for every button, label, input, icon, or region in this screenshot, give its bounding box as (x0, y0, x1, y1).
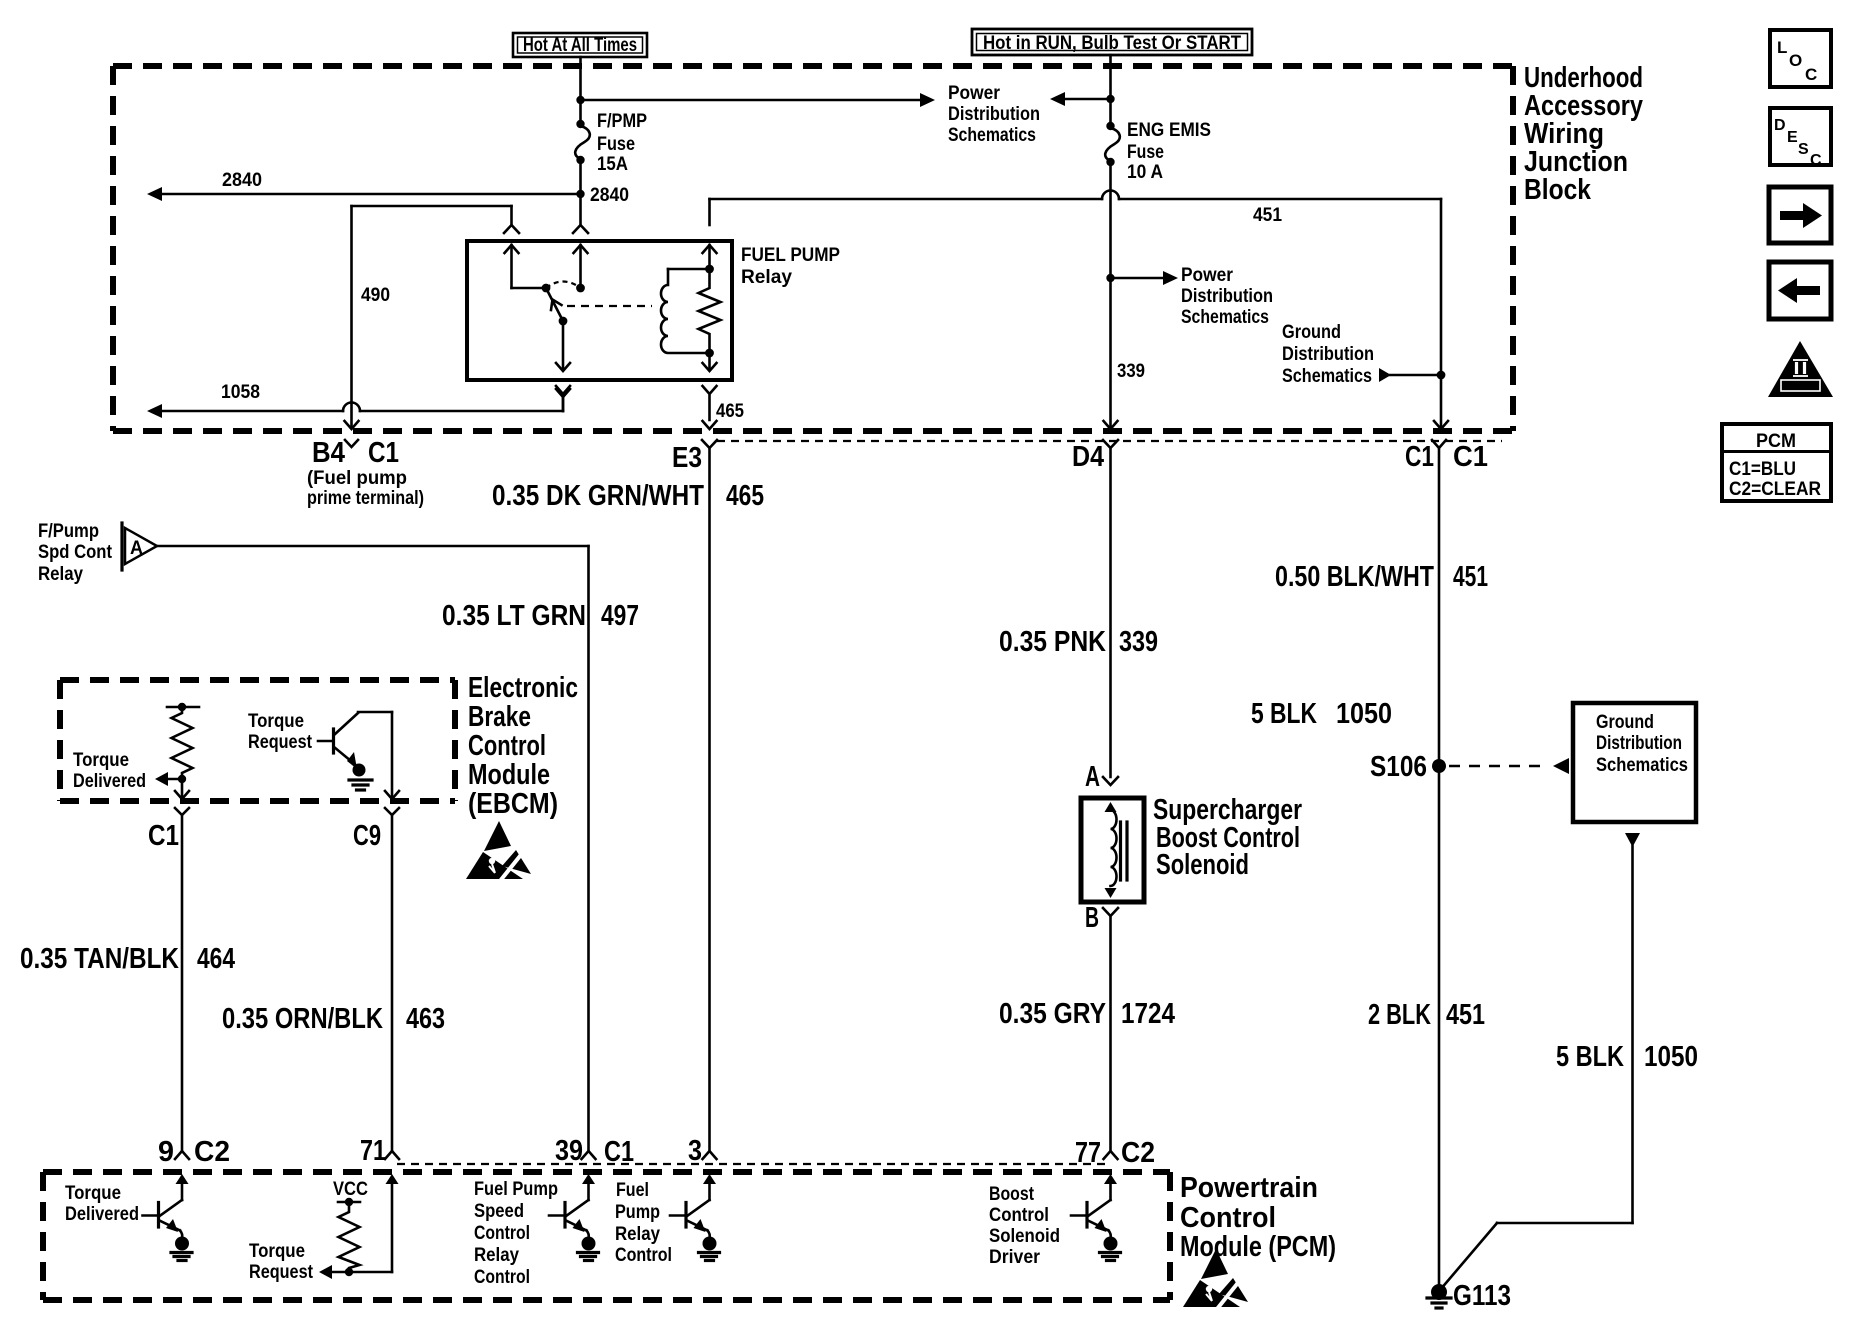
svg-text:5 BLK: 5 BLK (1556, 1041, 1624, 1073)
svg-text:F/Pump: F/Pump (38, 520, 99, 542)
label Supercharger Boost Control Solenoid (1153, 794, 1302, 881)
splice S106 (1432, 758, 1569, 774)
label 0.35 GRY 1724 (999, 998, 1175, 1030)
wire to Power Distribution Schematics (right arrow) (581, 93, 936, 107)
svg-text:C1: C1 (604, 1136, 634, 1168)
label 2 BLK 451 (1368, 999, 1485, 1031)
wire 339 vertical to D4 (1104, 162, 1118, 429)
svg-text:Power: Power (1181, 264, 1233, 286)
svg-text:15A: 15A (597, 153, 628, 175)
relay internal: dashed link switch to coil (567, 305, 652, 307)
svg-text:Schematics: Schematics (1181, 306, 1269, 328)
svg-text:10 A: 10 A (1127, 161, 1163, 183)
svg-text:Fuel: Fuel (616, 1179, 649, 1201)
svg-text:0.35 PNK: 0.35 PNK (999, 626, 1106, 658)
svg-text:Powertrain: Powertrain (1180, 1172, 1318, 1204)
svg-text:ENG EMIS: ENG EMIS (1127, 119, 1211, 141)
relay connector below switch (Y) (556, 386, 570, 411)
PCM dashed box (43, 1172, 1170, 1300)
svg-text:339: 339 (1119, 626, 1158, 658)
ESD symbol (PCM) (1183, 1249, 1248, 1309)
svg-text:B: B (1085, 902, 1099, 934)
svg-text:C2=CLEAR: C2=CLEAR (1729, 478, 1821, 500)
relay switch pivot node (542, 284, 551, 293)
solenoid coil with arrows (1105, 802, 1117, 898)
svg-text:5 BLK: 5 BLK (1251, 698, 1317, 730)
label Torque Request (PCM) (249, 1240, 313, 1283)
svg-text:D: D (1774, 117, 1786, 134)
Supercharger Boost Control Solenoid box (1081, 798, 1144, 902)
label 0.35 DK GRN/WHT 465 (492, 480, 764, 512)
relay switch blade with arrow (546, 288, 563, 321)
svg-text:Control: Control (989, 1204, 1049, 1226)
icon right-arrow box (1769, 187, 1831, 243)
svg-text:Distribution: Distribution (1282, 343, 1374, 365)
svg-text:Relay: Relay (741, 266, 792, 288)
svg-text:Torque: Torque (249, 1240, 305, 1262)
svg-text:464: 464 (197, 943, 235, 975)
svg-text:OBD II: OBD II (1785, 382, 1815, 392)
relay internal: left pin up-arrow and feed to switch pivot (505, 245, 544, 288)
svg-text:C: C (1810, 152, 1822, 169)
wire 1058 from left edge to relay switch pin (147, 389, 570, 418)
svg-text:2 BLK: 2 BLK (1368, 999, 1431, 1031)
svg-text:Delivered: Delivered (73, 770, 146, 792)
label pin 77 C2 (1075, 1137, 1155, 1169)
svg-text:77: 77 (1075, 1137, 1101, 1169)
svg-text:0.50 BLK/WHT: 0.50 BLK/WHT (1275, 561, 1434, 593)
wire ground distribution arrow to 451 (1379, 368, 1445, 382)
label (Fuel pump prime terminal) (307, 467, 424, 509)
label 0.35 PNK 339 (999, 626, 1158, 658)
svg-text:Distribution: Distribution (948, 103, 1040, 125)
icon DESC box (1770, 108, 1831, 169)
label Power Distribution Schematics (top) (948, 82, 1040, 146)
node 2840 (576, 190, 584, 198)
svg-text:Ground: Ground (1282, 321, 1341, 343)
relay resistor (699, 269, 721, 353)
svg-text:Delivered: Delivered (65, 1203, 139, 1225)
svg-text:3: 3 (688, 1135, 702, 1167)
connector A of solenoid (1103, 777, 1118, 785)
svg-text:Distribution: Distribution (1596, 732, 1682, 754)
label Torque Delivered (EBCM) (73, 749, 146, 792)
ground G113 (1427, 1284, 1451, 1308)
svg-text:Speed: Speed (474, 1200, 524, 1222)
svg-text:C2: C2 (1121, 1137, 1155, 1169)
svg-text:C1: C1 (148, 820, 179, 852)
svg-text:Power: Power (948, 82, 1000, 104)
PCM connector legend box (1722, 424, 1831, 501)
svg-text:Relay: Relay (38, 563, 83, 585)
wire to Power Distribution Schematics (left arrow) (1050, 92, 1111, 106)
svg-text:Boost: Boost (989, 1183, 1034, 1205)
svg-text:Spd Cont: Spd Cont (38, 541, 112, 563)
svg-text:Block: Block (1524, 174, 1592, 206)
svg-text:prime terminal): prime terminal) (307, 487, 424, 509)
connector D4 and wire 339 down to solenoid pin A (1103, 440, 1118, 777)
svg-text:B4: B4 (312, 437, 345, 469)
EBCM resistor Torque Delivered (167, 703, 199, 783)
svg-text:VCC: VCC (333, 1178, 368, 1200)
icon LOC box (1770, 30, 1831, 87)
svg-text:Schematics: Schematics (1282, 365, 1372, 387)
PCM transistor Torque Delivered (pin 9) (143, 1174, 193, 1261)
svg-text:451: 451 (1453, 561, 1488, 593)
arrow Torque Delivered (left) (155, 772, 182, 786)
svg-text:465: 465 (726, 480, 764, 512)
label Boost Control Solenoid Driver (989, 1183, 1060, 1268)
svg-text:Relay: Relay (615, 1223, 660, 1245)
svg-text:0.35 ORN/BLK: 0.35 ORN/BLK (222, 1003, 383, 1035)
svg-text:1724: 1724 (1121, 998, 1175, 1030)
svg-text:339: 339 (1117, 360, 1145, 382)
label Underhood Accessory Wiring Junction Block (1524, 62, 1643, 206)
svg-text:Driver: Driver (989, 1246, 1040, 1268)
svg-text:Hot At All Times: Hot At All Times (523, 34, 637, 56)
svg-text:Fuse: Fuse (597, 133, 635, 155)
label pin 39 C1 (555, 1135, 634, 1168)
svg-text:Distribution: Distribution (1181, 285, 1273, 307)
EBCM dashed box (60, 680, 455, 801)
svg-text:(EBCM): (EBCM) (468, 788, 558, 820)
label F/PMP Fuse 15A (597, 110, 647, 175)
svg-text:Schematics: Schematics (1596, 754, 1688, 776)
svg-text:C2: C2 (194, 1136, 230, 1168)
icon left-arrow box (1769, 262, 1831, 319)
Ground Distribution Schematics box (1573, 703, 1696, 822)
wire 490 branch to relay left pin (352, 206, 520, 233)
svg-text:O: O (1789, 51, 1802, 70)
svg-text:1050: 1050 (1336, 698, 1392, 730)
svg-text:Electronic: Electronic (468, 672, 578, 704)
connector E3 and wire 465 down to PCM pin 3 (702, 440, 717, 1159)
svg-text:Relay: Relay (474, 1244, 519, 1266)
svg-text:Control: Control (1180, 1202, 1276, 1234)
connector B4 (v mark) (345, 440, 358, 447)
relay switch dashed travel arc (546, 282, 581, 289)
svg-text:C: C (1805, 65, 1817, 84)
svg-text:Pump: Pump (615, 1201, 660, 1223)
relay internal: switch output down-arrow (556, 321, 570, 371)
svg-text:465: 465 (716, 400, 744, 422)
svg-text:Control: Control (474, 1266, 530, 1288)
svg-text:71: 71 (360, 1135, 386, 1167)
relay connector below coil (Y) and wire 465 (703, 386, 717, 429)
Underhood Accessory Wiring Junction Block dashed box (113, 66, 1513, 431)
svg-text:PCM: PCM (1756, 430, 1796, 452)
svg-text:L: L (1777, 38, 1787, 57)
svg-text:Fuse: Fuse (1127, 141, 1164, 163)
svg-text:9: 9 (158, 1136, 174, 1168)
svg-text:Solenoid: Solenoid (1156, 849, 1249, 881)
svg-text:2840: 2840 (590, 184, 629, 206)
svg-text:Control: Control (474, 1222, 530, 1244)
svg-text:Solenoid: Solenoid (989, 1225, 1060, 1247)
label 5 BLK 1050 (upper) (1251, 698, 1392, 730)
svg-text:39: 39 (555, 1135, 583, 1167)
svg-text:F/PMP: F/PMP (597, 110, 647, 132)
wire 497 from triangle to PCM pin 39 (157, 546, 596, 1159)
svg-text:Torque: Torque (73, 749, 129, 771)
svg-text:2840: 2840 (222, 169, 262, 191)
svg-text:Schematics: Schematics (948, 124, 1036, 146)
label F/Pump Spd Cont Relay (38, 520, 112, 585)
svg-text:0.35 TAN/BLK: 0.35 TAN/BLK (20, 943, 179, 975)
label C1 C1 (1405, 441, 1488, 473)
EBCM transistor Torque Request (318, 712, 392, 790)
svg-text:E3: E3 (672, 442, 702, 474)
svg-text:Control: Control (468, 730, 546, 762)
label Fuel Pump Speed Control Relay Control (474, 1178, 558, 1288)
label Power Distribution Schematics (middle) (1181, 264, 1273, 328)
svg-text:490: 490 (361, 284, 390, 306)
relay coil top node (705, 265, 714, 274)
svg-text:S106: S106 (1370, 751, 1427, 783)
wire fuse to 2840 node (579, 160, 582, 194)
svg-text:0.35 DK GRN/WHT: 0.35 DK GRN/WHT (492, 480, 704, 512)
connector C1 and wire 451 down to G113 (1432, 440, 1446, 1291)
svg-text:Fuel Pump: Fuel Pump (474, 1178, 558, 1200)
PCM connector face dotted line (397, 1163, 1108, 1165)
PCM transistor Boost Control Solenoid Driver (pin 77) (1071, 1174, 1121, 1261)
svg-text:S: S (1798, 141, 1809, 158)
svg-text:FUEL PUMP: FUEL PUMP (741, 244, 840, 266)
label 0.35 LT GRN 497 (442, 600, 639, 632)
label 0.50 BLK/WHT 451 (1275, 561, 1488, 593)
wire to Power Distribution Schematics (lower right arrow) (1111, 271, 1179, 285)
svg-text:Torque: Torque (248, 710, 304, 732)
wire from Hot in RUN down to ENG EMIS fuse (1109, 55, 1112, 126)
svg-text:(Fuel pump: (Fuel pump (307, 467, 407, 489)
svg-text:0.35 GRY: 0.35 GRY (999, 998, 1106, 1030)
icon OBD II triangle (1768, 341, 1833, 397)
svg-text:E: E (1787, 129, 1798, 146)
svg-text:463: 463 (406, 1003, 445, 1035)
svg-text:Torque: Torque (65, 1182, 121, 1204)
svg-text:Ground: Ground (1596, 711, 1654, 733)
svg-text:1050: 1050 (1644, 1041, 1698, 1073)
label Torque Delivered (PCM) (65, 1182, 139, 1225)
svg-text:0.35 LT GRN: 0.35 LT GRN (442, 600, 586, 632)
label Electronic Brake Control Module (EBCM) (468, 672, 578, 820)
svg-text:Brake: Brake (468, 701, 531, 733)
fuse F/PMP 15A (575, 120, 590, 164)
label Ground Distribution Schematics (box) (1596, 711, 1688, 776)
connector face dotted line (717, 440, 1502, 442)
ESD symbol (EBCM) (466, 821, 531, 881)
svg-text:Request: Request (248, 731, 312, 753)
connector B of solenoid and wire 1724 to PCM pin 77 (1103, 908, 1118, 1159)
EBCM C9 exit wire to PCM pin 71 (385, 712, 399, 1159)
wire 451 from relay to right side (710, 191, 1449, 430)
wire 1050 from ground distribution box to G113 (1440, 833, 1640, 1290)
label 5 BLK 1050 (lower) (1556, 1041, 1698, 1073)
label B4 C1 (312, 437, 399, 469)
svg-text:A: A (130, 537, 143, 559)
relay internal: middle pin contact (574, 245, 588, 292)
PCM resistor VCC / Torque Request (pin 71) (319, 1174, 399, 1279)
svg-text:1058: 1058 (221, 381, 260, 403)
relay internal: right pin with up-arrow (703, 245, 717, 269)
svg-text:Module: Module (468, 759, 550, 791)
node at F/PMP feed (576, 96, 584, 104)
node ENG EMIS feed (1106, 95, 1114, 103)
banner Hot in RUN, Bulb Test Or START (972, 29, 1252, 55)
F/Pump Spd Cont Relay off-page triangle A (122, 523, 157, 570)
label Fuel Pump Relay Control (615, 1179, 672, 1266)
fuse ENG EMIS 10 A (1105, 122, 1120, 166)
svg-text:C9: C9 (353, 820, 381, 852)
relay box FUEL PUMP Relay (467, 241, 732, 380)
wire 490 vertical to B4 (345, 206, 359, 429)
svg-text:451: 451 (1446, 999, 1485, 1031)
label FUEL PUMP Relay (741, 244, 840, 288)
svg-text:C1: C1 (1453, 441, 1488, 473)
relay switch output node (559, 317, 568, 326)
svg-text:497: 497 (601, 600, 639, 632)
wire 2840 node to relay pin (573, 194, 588, 233)
svg-text:Request: Request (249, 1261, 313, 1283)
svg-text:D4: D4 (1072, 441, 1104, 473)
node power distribution branch (1106, 274, 1114, 282)
relay coil bottom node (705, 349, 714, 358)
label 0.35 TAN/BLK 464 (20, 943, 235, 975)
label Powertrain Control Module (PCM) (1180, 1172, 1336, 1263)
label 0.35 ORN/BLK 463 (222, 1003, 445, 1035)
PCM transistor Fuel Pump Relay Control (pin 3) (670, 1174, 720, 1261)
EBCM C1 exit wire to PCM pin 9 (175, 779, 189, 1159)
svg-text:C1: C1 (1405, 441, 1434, 473)
wire 2840 from left edge (147, 187, 581, 201)
label Ground Distribution Schematics (in junction block) (1282, 321, 1374, 387)
svg-text:A: A (1085, 761, 1100, 793)
relay internal: bottom right down-arrow (703, 353, 717, 371)
svg-text:Hot in RUN, Bulb Test Or START: Hot in RUN, Bulb Test Or START (983, 32, 1241, 54)
svg-text:G113: G113 (1453, 1280, 1511, 1312)
relay coil (661, 269, 710, 353)
wire from Hot At All Times down to F/PMP fuse (579, 57, 582, 124)
label Torque Request (EBCM) (248, 710, 312, 753)
banner Hot At All Times (513, 33, 647, 57)
svg-text:Module (PCM): Module (PCM) (1180, 1231, 1336, 1263)
label pin 9 C2 (158, 1136, 230, 1168)
svg-text:451: 451 (1253, 204, 1282, 226)
svg-text:Control: Control (615, 1244, 672, 1266)
svg-text:C1=BLU: C1=BLU (1729, 458, 1796, 480)
solenoid core lines (1121, 822, 1128, 880)
label ENG EMIS Fuse 10 A (1127, 119, 1211, 183)
PCM transistor Fuel Pump Speed Control Relay Control (pin 39) (549, 1174, 599, 1261)
svg-text:C1: C1 (368, 437, 399, 469)
